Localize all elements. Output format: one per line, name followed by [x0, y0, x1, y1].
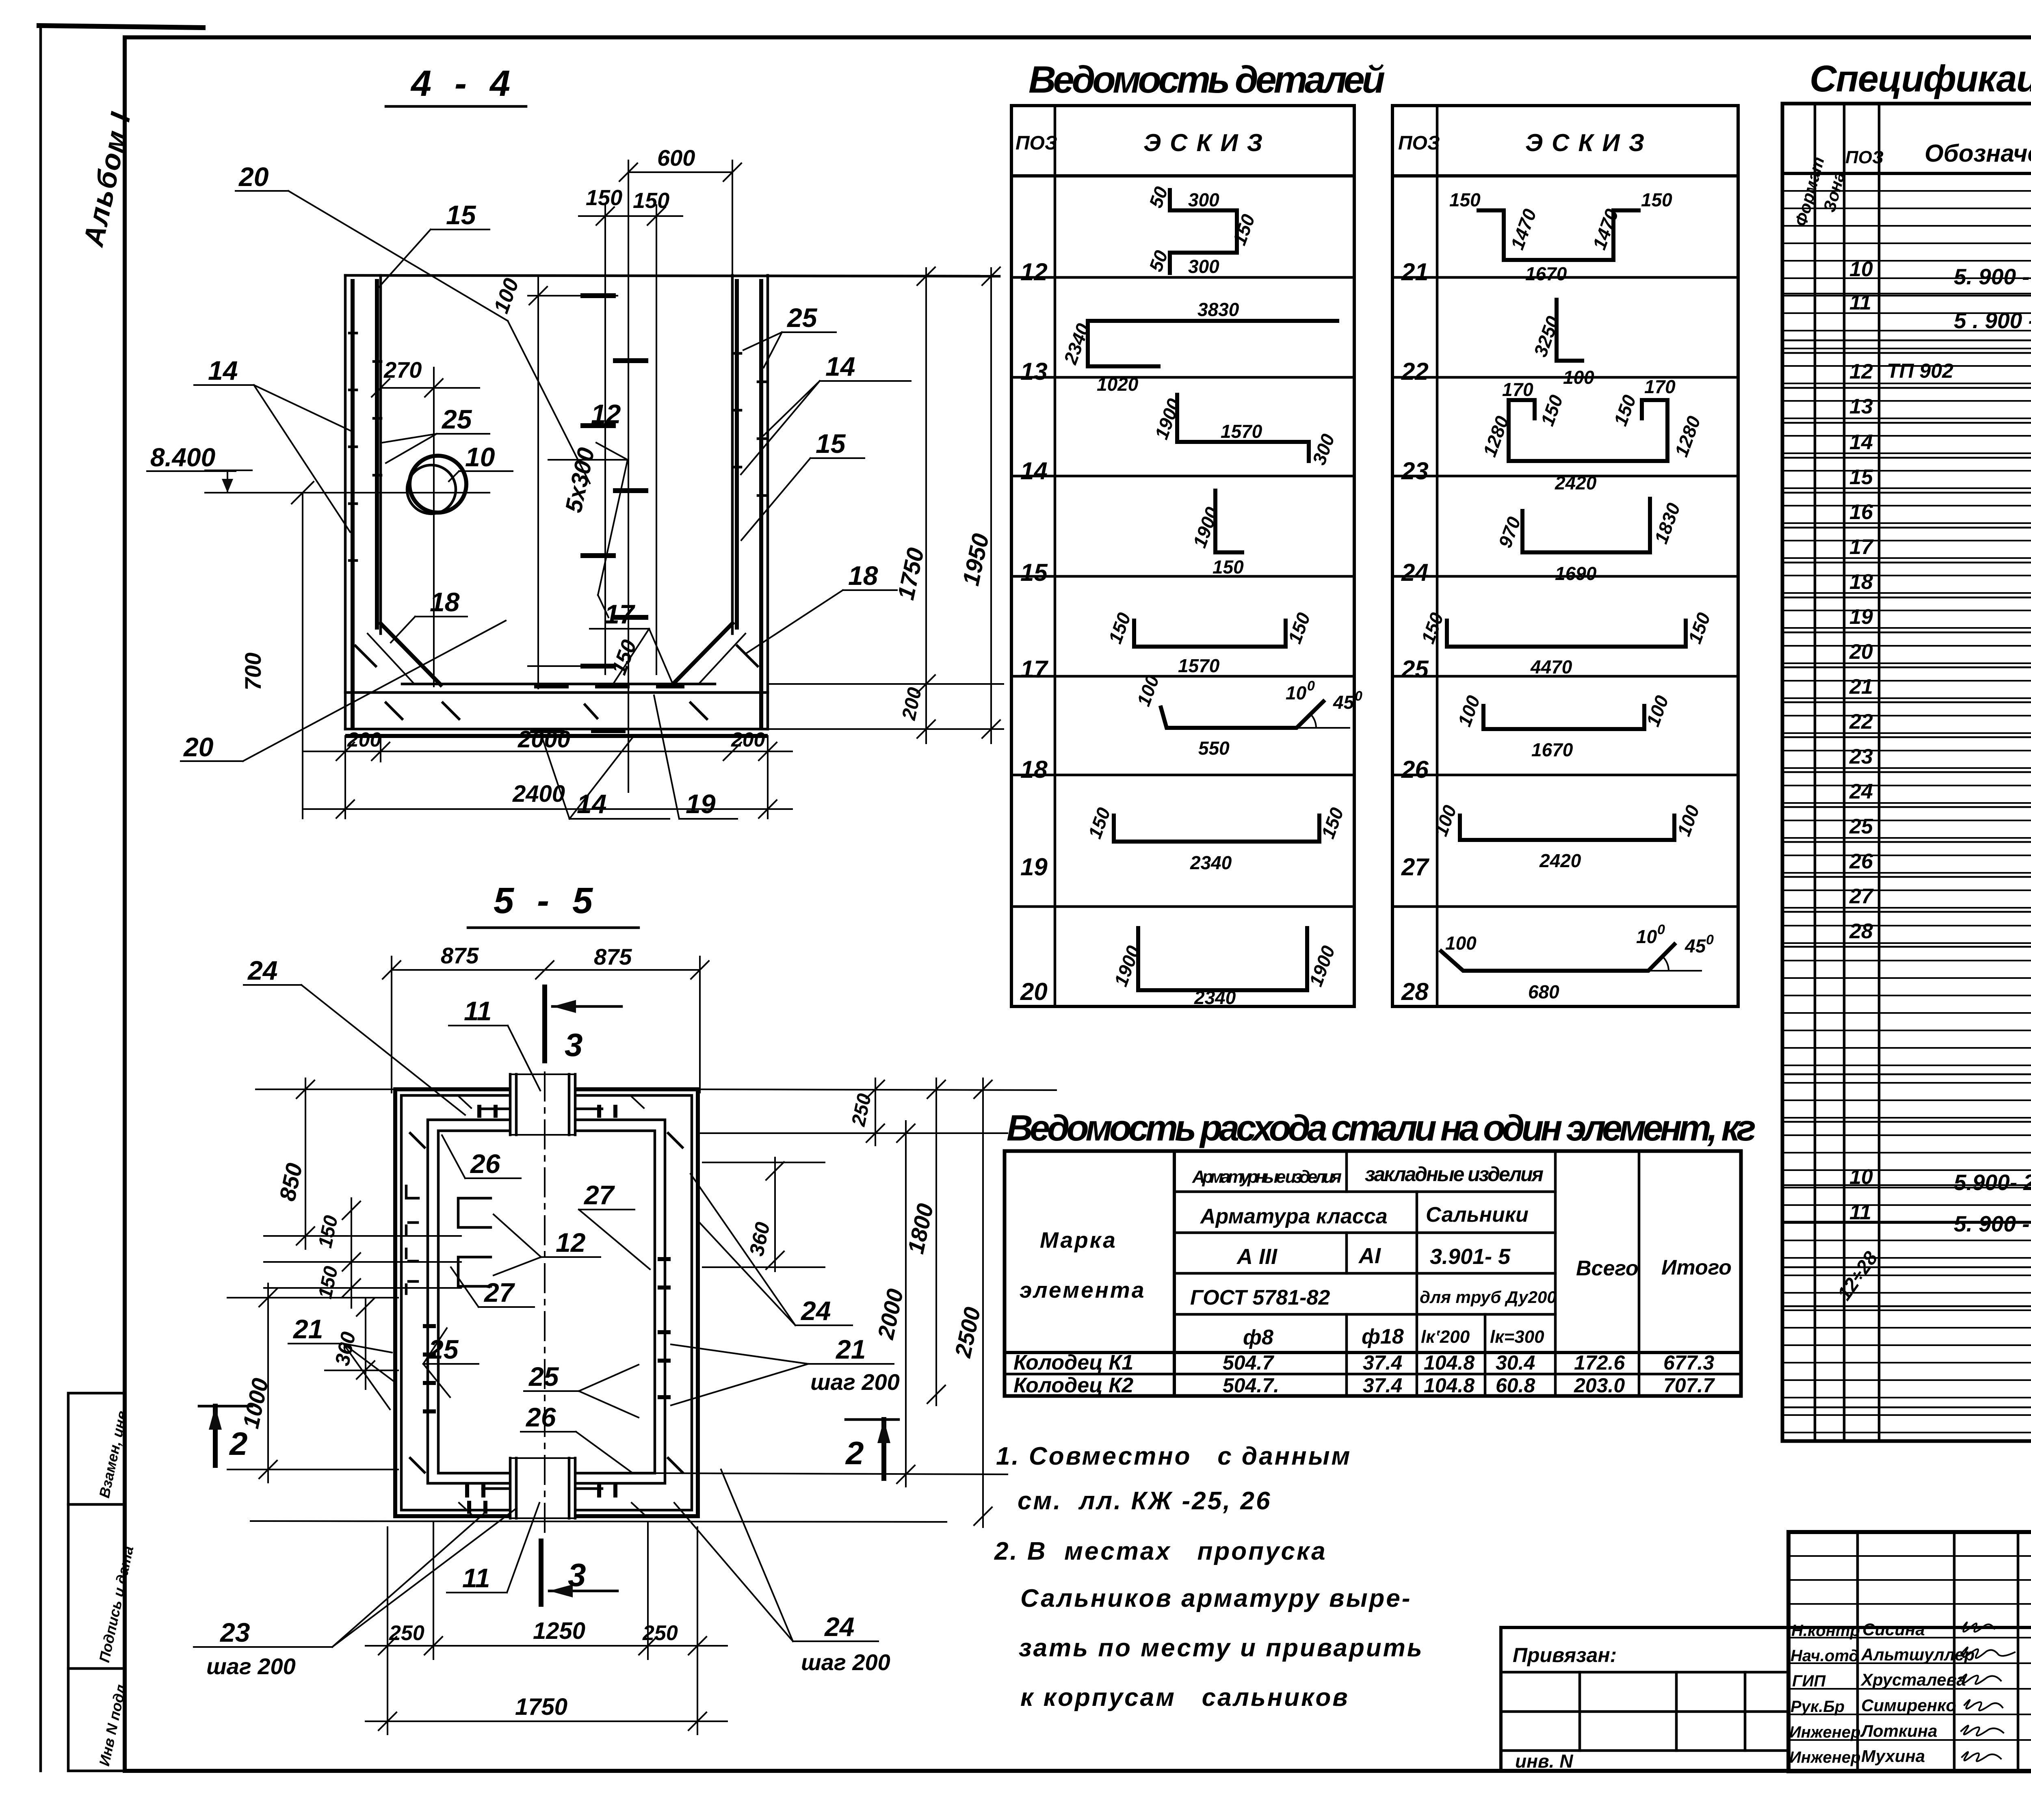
svg-text:12: 12	[1849, 360, 1873, 383]
hatch left corner	[355, 646, 376, 666]
dim 270	[381, 387, 479, 389]
sketch pos19	[1084, 805, 1348, 873]
marker 2 right	[846, 1418, 899, 1421]
dim 100 upper interior	[528, 295, 617, 296]
svg-text:27: 27	[483, 1277, 515, 1307]
svg-text:172.6: 172.6	[1574, 1351, 1625, 1374]
svg-text:ф8: ф8	[1243, 1326, 1273, 1349]
svg-text:21: 21	[835, 1334, 866, 1364]
wall top line across	[345, 275, 999, 276]
svg-text:11: 11	[1849, 1201, 1871, 1224]
svg-text:700: 700	[240, 653, 266, 690]
dim 2500 right	[982, 1078, 984, 1527]
pipe hole pos10	[409, 456, 466, 513]
svg-text:250: 250	[389, 1621, 424, 1645]
svg-text:1250: 1250	[533, 1618, 585, 1644]
svg-text:2420: 2420	[1539, 850, 1581, 871]
dim 875 875 top	[392, 969, 700, 971]
svg-text:680: 680	[1528, 981, 1559, 1002]
svg-text:ПОЗ: ПОЗ	[1845, 147, 1884, 167]
sketch pos14	[1151, 395, 1339, 467]
Альбом I vertical label	[77, 109, 137, 250]
svg-text:203.0: 203.0	[1574, 1374, 1625, 1397]
svg-text:22: 22	[1849, 710, 1873, 734]
svg-text:21: 21	[292, 1314, 323, 1344]
svg-text:19: 19	[686, 789, 716, 819]
svg-text:Симиренко: Симиренко	[1861, 1696, 1956, 1715]
dim 360 right	[774, 1158, 776, 1271]
rebar right wall	[735, 281, 739, 628]
svg-text:23: 23	[219, 1617, 250, 1647]
svg-text:ПОЗ: ПОЗ	[1015, 132, 1057, 154]
svg-text:Сисина: Сисина	[1862, 1620, 1925, 1639]
svg-text:170: 170	[1502, 379, 1533, 400]
svg-text:45: 45	[1333, 692, 1355, 713]
svg-text:250: 250	[642, 1621, 678, 1645]
bottom dim 1750	[366, 1720, 727, 1722]
svg-text:Арматурные изделия: Арматурные изделия	[1192, 1167, 1342, 1187]
main title block	[1788, 1532, 2031, 1771]
svg-text:30.4: 30.4	[1496, 1351, 1535, 1374]
dim 360 left	[365, 1298, 366, 1389]
sketch pos12	[1145, 184, 1259, 277]
level 8.400 line	[205, 492, 489, 493]
svg-text:200: 200	[731, 728, 765, 751]
svg-text:10: 10	[1849, 258, 1873, 281]
slab rebar dashes top	[536, 684, 567, 688]
svg-text:шаг 200: шаг 200	[801, 1649, 890, 1675]
svg-text:Итого: Итого	[1661, 1256, 1732, 1279]
svg-text:26: 26	[525, 1402, 556, 1432]
bottom dim 2400	[303, 808, 792, 810]
svg-text:инв. N: инв. N	[1515, 1751, 1573, 1772]
svg-text:2340: 2340	[1194, 987, 1236, 1008]
svg-text:150: 150	[1449, 189, 1481, 210]
svg-text:ГОСТ 5781-82: ГОСТ 5781-82	[1190, 1286, 1330, 1309]
plan outer wall	[395, 1089, 698, 1516]
svg-text:18: 18	[430, 587, 460, 617]
svg-text:875: 875	[594, 944, 632, 970]
svg-text:25: 25	[528, 1361, 559, 1392]
top/bottom wall rebar dashes	[477, 1107, 481, 1116]
svg-text:Рук.Бр: Рук.Бр	[1791, 1698, 1845, 1716]
svg-text:17: 17	[1020, 656, 1048, 683]
svg-text:104.8: 104.8	[1424, 1351, 1475, 1374]
embedded parts pos12	[458, 1198, 491, 1227]
sketch pos18	[1133, 672, 1362, 759]
svg-text:Спецификация нефтесборного к: Спецификация нефтесборного колодца	[1810, 58, 2031, 100]
svg-text:элемента: элемента	[1020, 1277, 1145, 1303]
svg-text:5. 900 - 2: 5. 900 - 2	[1954, 264, 2031, 289]
dim 150 lower interior	[528, 665, 617, 667]
svg-text:25: 25	[786, 303, 818, 333]
svg-text:11: 11	[464, 996, 492, 1026]
svg-text:Привязан:: Привязан:	[1513, 1644, 1617, 1666]
plan inner wall	[438, 1131, 655, 1473]
svg-text:1670: 1670	[1525, 263, 1567, 284]
svg-text:45: 45	[1685, 935, 1706, 957]
svg-text:20: 20	[1020, 978, 1048, 1005]
svg-text:60.8: 60.8	[1496, 1374, 1535, 1397]
center axis	[544, 1072, 546, 1535]
wall left inner face	[379, 275, 382, 634]
dim 250 right top	[875, 1078, 876, 1145]
dim 850 left	[305, 1078, 306, 1249]
dim 1800 right	[935, 1078, 937, 1405]
signatures	[1960, 1622, 2015, 1761]
svg-text:2: 2	[229, 1426, 248, 1462]
svg-text:150: 150	[586, 186, 622, 210]
sketch pos13	[1059, 299, 1337, 395]
svg-text:14: 14	[825, 351, 855, 381]
svg-text:15: 15	[1020, 559, 1048, 586]
sketch pos25	[1417, 610, 1715, 677]
svg-text:1750: 1750	[515, 1694, 567, 1720]
interior bottom / slab top	[402, 683, 715, 686]
svg-text:ф18: ф18	[1362, 1325, 1404, 1348]
svg-text:150: 150	[1641, 189, 1672, 210]
svg-text:12: 12	[591, 399, 621, 429]
svg-text:2: 2	[845, 1435, 864, 1471]
svg-text:3830: 3830	[1197, 299, 1239, 320]
svg-text:зать по месту и приварить: зать по месту и приварить	[1019, 1634, 1424, 1662]
svg-text:104.8: 104.8	[1424, 1374, 1475, 1397]
svg-text:100: 100	[1445, 933, 1477, 954]
svg-text:15: 15	[816, 428, 846, 459]
svg-text:14: 14	[1849, 431, 1873, 454]
marker 3 bottom	[539, 1541, 543, 1604]
svg-text:28: 28	[1849, 920, 1873, 943]
steel table grid	[1005, 1151, 1741, 1396]
svg-text:1670: 1670	[1531, 739, 1573, 760]
svg-text:875: 875	[441, 943, 479, 968]
sketch pos22	[1530, 300, 1595, 388]
svg-text:2400: 2400	[512, 781, 565, 807]
svg-text:22: 22	[1401, 358, 1429, 385]
wall left outer face	[344, 275, 347, 729]
svg-text:26: 26	[1401, 756, 1429, 783]
dim 700 vertical	[302, 493, 303, 818]
svg-text:200: 200	[347, 728, 381, 751]
svg-text:300: 300	[1188, 256, 1219, 277]
svg-text:Ведомость расхода стали на оди: Ведомость расхода стали на один элемент,…	[1007, 1108, 1756, 1149]
svg-text:Н.контр: Н.контр	[1791, 1622, 1860, 1640]
svg-text:10: 10	[1849, 1165, 1873, 1189]
rebar dots left wall	[425, 1324, 434, 1328]
svg-text:2420: 2420	[1555, 472, 1597, 493]
svg-text:37.4: 37.4	[1363, 1351, 1402, 1374]
svg-text:1570: 1570	[1178, 655, 1220, 676]
svg-text:270: 270	[383, 357, 422, 383]
svg-text:16: 16	[1849, 500, 1873, 524]
svg-text:11: 11	[462, 1563, 490, 1593]
svg-text:25: 25	[1401, 656, 1429, 683]
svg-text:550: 550	[1198, 738, 1230, 759]
svg-text:600: 600	[657, 145, 695, 171]
svg-text:27: 27	[1849, 885, 1874, 908]
dim 2000 right	[905, 1121, 907, 1487]
svg-text:0: 0	[1657, 922, 1665, 937]
svg-text:11: 11	[1849, 291, 1871, 314]
svg-text:23: 23	[1401, 457, 1429, 485]
svg-text:17: 17	[1849, 535, 1874, 559]
svg-text:1570: 1570	[1221, 421, 1262, 442]
svg-text:А III: А III	[1236, 1244, 1277, 1269]
bottom dim 250 1250 250	[387, 1527, 388, 1734]
svg-text:19: 19	[1849, 605, 1873, 629]
svg-text:12: 12	[1020, 258, 1048, 286]
table 1 grid	[1011, 106, 1354, 1006]
svg-text:Инженер: Инженер	[1789, 1723, 1860, 1741]
svg-text:13: 13	[1849, 395, 1873, 418]
svg-text:ТП 902: ТП 902	[1887, 359, 1953, 382]
svg-text:24: 24	[824, 1612, 854, 1642]
svg-text:15: 15	[1849, 465, 1873, 489]
svg-text:10: 10	[1636, 926, 1657, 947]
sketch pos20	[1110, 928, 1339, 1008]
svg-text:20: 20	[183, 732, 214, 762]
sketch pos28	[1441, 922, 1714, 1002]
extension lines around plan	[256, 1089, 395, 1090]
svg-text:ЭСКИЗ: ЭСКИЗ	[1525, 129, 1653, 156]
svg-text:ГИП: ГИП	[1792, 1672, 1826, 1690]
svg-text:0: 0	[1706, 932, 1714, 948]
svg-text:504.7: 504.7	[1223, 1351, 1274, 1374]
top opening sальник pos11	[483, 1073, 602, 1135]
svg-text:Колодец К1: Колодец К1	[1013, 1351, 1133, 1374]
svg-text:2340: 2340	[1190, 852, 1232, 873]
svg-text:300: 300	[1188, 189, 1219, 210]
svg-text:шаг 200: шаг 200	[810, 1369, 900, 1395]
svg-text:18: 18	[848, 560, 878, 591]
svg-text:17: 17	[604, 599, 636, 629]
svg-text:150: 150	[633, 188, 669, 213]
sheet edge line left	[39, 25, 203, 1771]
svg-text:21: 21	[1401, 258, 1429, 286]
svg-text:170: 170	[1644, 376, 1676, 397]
svg-text:5 - 5: 5 - 5	[494, 881, 599, 921]
svg-text:5.900- 2: 5.900- 2	[1954, 1170, 2031, 1195]
svg-text:23: 23	[1849, 745, 1873, 768]
svg-text:504.7.: 504.7.	[1223, 1374, 1279, 1397]
svg-text:27: 27	[583, 1180, 615, 1210]
bottom opening sальник pos11	[483, 1457, 602, 1519]
svg-text:3: 3	[565, 1027, 583, 1063]
svg-text:Ведомость деталей: Ведомость деталей	[1028, 58, 1385, 101]
sketch pos17	[1104, 610, 1314, 676]
svg-text:8.400: 8.400	[150, 443, 215, 472]
svg-text:21: 21	[1849, 675, 1873, 699]
dim 1950 vertical	[990, 268, 992, 743]
svg-text:ЭСКИЗ: ЭСКИЗ	[1143, 129, 1271, 156]
svg-text:Всего: Всего	[1576, 1257, 1639, 1280]
plan rebar contour in wall	[428, 1120, 665, 1483]
svg-text:12: 12	[556, 1227, 586, 1257]
slab bottom	[345, 728, 768, 731]
rebar dots right wall	[660, 1257, 669, 1261]
svg-text:для труб Ду200: для труб Ду200	[1420, 1288, 1557, 1307]
svg-text:677.3: 677.3	[1663, 1351, 1714, 1374]
bottom dim 200 2000 200	[344, 736, 346, 818]
svg-text:25: 25	[441, 404, 472, 434]
svg-text:1. Совместно с данным: 1. Совместно с данным	[996, 1442, 1351, 1470]
svg-text:3: 3	[568, 1557, 586, 1593]
svg-text:Лоткина: Лоткина	[1860, 1721, 1938, 1740]
section marker 3 top	[542, 987, 547, 1061]
dim 600 top	[628, 171, 732, 173]
svg-text:25: 25	[1849, 815, 1873, 838]
svg-text:10: 10	[465, 442, 495, 472]
svg-text:24: 24	[800, 1296, 831, 1326]
svg-text:13: 13	[1020, 358, 1048, 385]
svg-text:28: 28	[1401, 978, 1429, 1005]
dim 150 150 left	[351, 1198, 352, 1308]
svg-text:ПОЗ: ПОЗ	[1398, 132, 1440, 154]
svg-text:3.901- 5: 3.901- 5	[1430, 1244, 1511, 1269]
svg-text:2000: 2000	[517, 726, 570, 753]
svg-text:26: 26	[470, 1149, 501, 1179]
svg-text:18: 18	[1849, 570, 1873, 594]
svg-text:Инженер: Инженер	[1789, 1749, 1860, 1766]
svg-text:см. лл. КЖ -25, 26: см. лл. КЖ -25, 26	[1018, 1487, 1271, 1515]
rebar ticks left wall	[349, 332, 357, 335]
hatch right corner	[737, 646, 758, 666]
haunch left	[381, 623, 441, 685]
svg-text:20: 20	[238, 162, 269, 192]
svg-text:20: 20	[1849, 640, 1873, 664]
privyazan box	[1501, 1627, 1788, 1771]
svg-text:100: 100	[1563, 367, 1594, 388]
svg-text:шаг 200: шаг 200	[206, 1653, 296, 1679]
svg-text:14: 14	[1020, 457, 1048, 485]
sketch pos21	[1449, 189, 1672, 284]
wall right inner face	[731, 275, 734, 634]
svg-text:к корпусам сальников: к корпусам сальников	[1020, 1684, 1349, 1712]
svg-text:707.7: 707.7	[1663, 1374, 1715, 1397]
svg-text:закладные изделия: закладные изделия	[1365, 1163, 1544, 1186]
svg-text:Хрусталева: Хрусталева	[1860, 1670, 1966, 1689]
svg-text:2. В местах пропуска: 2. В местах пропуска	[994, 1537, 1327, 1565]
dim 150 150 top	[579, 215, 682, 217]
svg-text:0: 0	[1355, 688, 1362, 704]
rebar cross dashes interior	[583, 293, 613, 298]
svg-text:0: 0	[1307, 678, 1315, 694]
rebar ticks right wall	[734, 352, 741, 355]
svg-text:Обозначение: Обозначение	[1925, 140, 2031, 167]
svg-text:15: 15	[446, 200, 476, 230]
svg-text:Колодец К2: Колодец К2	[1013, 1374, 1133, 1397]
svg-text:10: 10	[1286, 682, 1307, 703]
dim 1000 left	[267, 1283, 269, 1482]
svg-text:5 . 900 - 2: 5 . 900 - 2	[1954, 308, 2031, 333]
corner hatches	[410, 1133, 424, 1147]
rebar left wall	[351, 281, 355, 726]
svg-text:АI: АI	[1358, 1244, 1381, 1268]
svg-text:4 - 4: 4 - 4	[410, 63, 517, 104]
sketch pos26	[1454, 693, 1673, 760]
wall right outer face	[766, 275, 769, 729]
svg-text:lк=300: lк=300	[1490, 1327, 1544, 1347]
svg-text:26: 26	[1849, 850, 1873, 873]
svg-text:1690: 1690	[1555, 563, 1597, 584]
svg-text:24: 24	[1401, 559, 1429, 586]
svg-text:Сальники: Сальники	[1426, 1203, 1529, 1227]
svg-text:24: 24	[247, 955, 277, 985]
svg-text:Альтшуллер: Альтшуллер	[1861, 1645, 1975, 1664]
sketch pos23	[1479, 376, 1705, 493]
svg-text:150: 150	[1213, 556, 1244, 578]
table 2 grid	[1392, 106, 1738, 1006]
marker 2 left	[199, 1405, 252, 1408]
dim 1750 vertical	[925, 268, 927, 743]
haunch right	[672, 623, 732, 685]
svg-text:18: 18	[1020, 756, 1048, 783]
svg-text:24: 24	[1849, 780, 1873, 803]
svg-text:5. 900 - 2: 5. 900 - 2	[1954, 1211, 2031, 1236]
svg-text:Мухина: Мухина	[1861, 1746, 1925, 1766]
sketch pos15	[1189, 491, 1244, 578]
spec fine row ruling	[1782, 191, 2031, 1433]
spec table outer	[1782, 104, 2031, 1441]
svg-text:37.4: 37.4	[1363, 1374, 1402, 1397]
svg-text:4470: 4470	[1530, 656, 1572, 677]
svg-text:Нач.отд: Нач.отд	[1791, 1647, 1859, 1665]
svg-text:Арматура класса: Арматура класса	[1200, 1205, 1388, 1228]
svg-text:14: 14	[208, 355, 238, 385]
sketch pos24	[1494, 499, 1685, 584]
svg-text:19: 19	[1020, 853, 1048, 881]
sketch pos27	[1430, 802, 1704, 871]
svg-text:Марка: Марка	[1040, 1227, 1117, 1253]
svg-text:lкʽ200: lкʽ200	[1421, 1327, 1470, 1347]
svg-text:1020: 1020	[1097, 374, 1139, 395]
svg-text:Сальников арматуру выре-: Сальников арматуру выре-	[1020, 1584, 1412, 1612]
svg-text:27: 27	[1401, 853, 1429, 881]
left stamp strip	[68, 1393, 136, 1771]
